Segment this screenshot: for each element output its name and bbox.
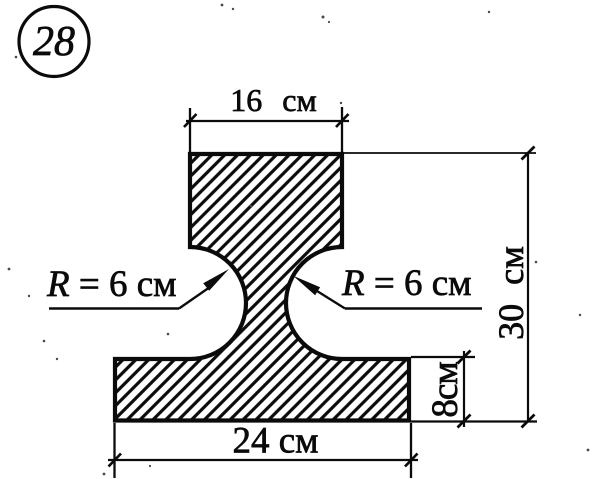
leader underline (345, 307, 482, 309)
dimension line (108, 459, 418, 461)
radius leader left R = 6 см (46, 264, 229, 309)
tick right (405, 454, 418, 467)
hatched pedestal cross-section body (115, 154, 409, 421)
problem number badge circle 28 (19, 7, 89, 77)
tick left (184, 114, 197, 127)
extension line from bottom edge (411, 420, 537, 422)
tick left (109, 454, 122, 467)
leader diagonal (179, 287, 210, 309)
extension line from top edge (344, 152, 536, 154)
svg-text:24 см: 24 см (232, 421, 318, 462)
extension line left (189, 108, 191, 153)
dimension 24 см (bottom width) (108, 421, 418, 479)
extension line right (341, 107, 343, 153)
svg-text:8см: 8см (425, 362, 466, 418)
extension line right (410, 423, 412, 478)
arrowhead (293, 276, 320, 296)
extension line from flange top (411, 356, 475, 358)
dimension 30 см (total height, right side) (344, 147, 537, 428)
svg-text:16 см: 16 см (230, 82, 316, 118)
extension line left (113, 423, 115, 478)
dimension line (463, 351, 465, 427)
leader diagonal (317, 291, 345, 309)
dimension 8 см (flange height) (411, 351, 475, 428)
svg-text:30 см: 30 см (491, 246, 531, 340)
dimension 16 см (top width) (184, 82, 349, 153)
tick bottom (522, 415, 535, 428)
tick right (336, 114, 349, 127)
leader underline (49, 307, 179, 309)
radius leader right R = 6 см (293, 263, 482, 309)
svg-text:R = 6 см: R = 6 см (46, 264, 177, 305)
svg-text:R = 6 см: R = 6 см (341, 263, 472, 304)
tick bottom (458, 415, 471, 428)
dimension line (186, 120, 349, 122)
tick top (458, 351, 471, 364)
tick top (522, 147, 535, 160)
svg-text:28: 28 (33, 19, 75, 65)
dimension line (527, 153, 529, 421)
arrowhead (203, 269, 229, 291)
